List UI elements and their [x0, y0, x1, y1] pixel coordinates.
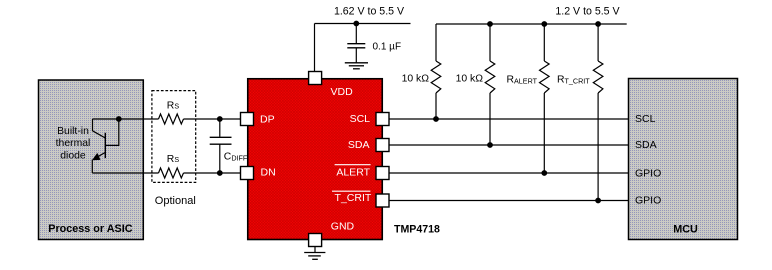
pin pad SCL — [376, 113, 389, 126]
junction CDIFF-DN — [217, 170, 223, 176]
svg-text:10 kΩ: 10 kΩ — [402, 74, 430, 85]
wire 1.2V supply rail — [436, 23, 627, 25]
junction rail-R2 — [487, 21, 493, 27]
box Process or ASIC — [39, 80, 144, 240]
dashed box Optional — [152, 91, 196, 183]
resistor RS lower — [159, 168, 184, 178]
ground under C1 — [345, 63, 368, 69]
pin pad GND — [309, 234, 322, 247]
svg-text:MCU: MCU — [673, 224, 698, 236]
svg-text:RALERT: RALERT — [507, 75, 538, 86]
svg-text:1.62 V to 5.5 V: 1.62 V to 5.5 V — [334, 6, 405, 18]
box MCU — [629, 79, 738, 240]
svg-text:CDIFF: CDIFF — [224, 152, 248, 163]
transistor Q1 thermal diode — [92, 119, 119, 173]
junction on 1.62V rail — [353, 21, 359, 27]
IC U1 TMP4718 body — [248, 79, 383, 240]
resistor RALERT — [540, 24, 550, 173]
pin pad SDA — [376, 139, 389, 152]
junction rail-R3 — [541, 21, 547, 27]
junction CDIFF-DP — [217, 116, 223, 122]
junction Q1-DP — [116, 116, 122, 122]
pin pad VDD — [309, 72, 322, 85]
svg-text:Process or ASIC: Process or ASIC — [48, 223, 132, 235]
svg-text:1.2 V to 5.5 V: 1.2 V to 5.5 V — [555, 6, 620, 18]
svg-text:TMP4718: TMP4718 — [394, 224, 440, 236]
svg-text:SDA: SDA — [635, 139, 657, 151]
junction RT_CRIT-GPIO — [595, 198, 601, 204]
svg-text:VDD: VDD — [331, 86, 354, 98]
svg-text:T_CRIT: T_CRIT — [335, 192, 372, 204]
wire SDA net — [383, 144, 629, 146]
svg-text:SDA: SDA — [348, 139, 370, 151]
svg-text:DN: DN — [261, 167, 276, 179]
svg-text:RT_CRIT: RT_CRIT — [557, 75, 590, 86]
svg-text:RS: RS — [167, 154, 180, 165]
svg-text:10 kΩ: 10 kΩ — [456, 74, 484, 85]
svg-text:RS: RS — [167, 101, 180, 112]
pin pad T_CRIT — [376, 194, 389, 207]
resistor RT_CRIT — [593, 24, 603, 201]
pin pad ALERT — [376, 167, 389, 180]
wire DN net — [92, 172, 241, 174]
svg-text:Built-inthermaldiode: Built-inthermaldiode — [56, 126, 91, 162]
resistor RS upper — [159, 114, 184, 124]
svg-text:ALERT: ALERT — [336, 166, 370, 178]
resistor R2 10 kOhm (SDA pullup) — [485, 24, 495, 145]
svg-text:SCL: SCL — [635, 113, 656, 125]
svg-text:Optional: Optional — [155, 195, 196, 207]
junction RALERT-GPIO — [541, 170, 547, 176]
svg-text:SCL: SCL — [350, 113, 371, 125]
capacitor CDIFF — [210, 119, 232, 173]
wire SCL net — [383, 118, 629, 120]
pin pad DP — [241, 113, 254, 126]
svg-text:GND: GND — [331, 220, 355, 232]
capacitor C1 0.1 uF — [347, 24, 365, 63]
wire 1.62V supply rail — [315, 23, 411, 25]
resistor R1 10 kOhm (SCL pullup) — [431, 24, 441, 119]
svg-text:GPIO: GPIO — [635, 167, 661, 179]
wire T_CRIT net — [383, 200, 629, 202]
junction R2-SDA — [487, 142, 493, 148]
svg-text:0.1 µF: 0.1 µF — [373, 42, 402, 53]
wire DP net — [93, 118, 242, 120]
svg-text:DP: DP — [260, 113, 275, 125]
junction rail-R4 — [595, 21, 601, 27]
junction R1-SCL — [433, 116, 439, 122]
svg-text:GPIO: GPIO — [635, 195, 661, 207]
ground under GND pin — [304, 247, 325, 260]
wire VDD drop from rail — [314, 24, 316, 73]
pin pad DN — [241, 167, 254, 180]
wire ALERT net — [383, 172, 629, 174]
